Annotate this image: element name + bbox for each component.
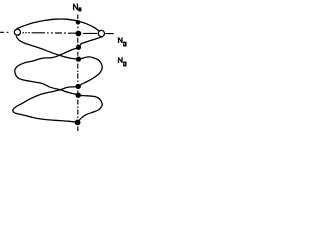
node dot D0 at axes crossing xyxy=(76,31,82,37)
node dot D3 xyxy=(76,57,81,62)
node dot D5 xyxy=(76,93,81,98)
node dot D2 xyxy=(76,45,81,50)
horizontal dash-dot axis xyxy=(0,32,114,33)
node dot D1 on top arc xyxy=(76,20,81,25)
left end circle xyxy=(14,29,20,35)
label N1 top xyxy=(74,4,78,11)
front strand from left circle through X1, D3, right loop B, D4, X2, left loop Q to bottom node xyxy=(13,36,103,122)
back strand from right circle through D2, X1, left loop A, X2, D5, right loop C to bottom node xyxy=(15,37,103,123)
label N2 right upper xyxy=(119,37,123,43)
vertical dash-dot axis xyxy=(77,15,79,132)
right end circle xyxy=(98,30,104,36)
node dot D6 xyxy=(75,120,81,126)
top arc strand xyxy=(17,19,101,32)
node dot D4 xyxy=(76,84,81,89)
label N3 right lower xyxy=(119,57,123,63)
